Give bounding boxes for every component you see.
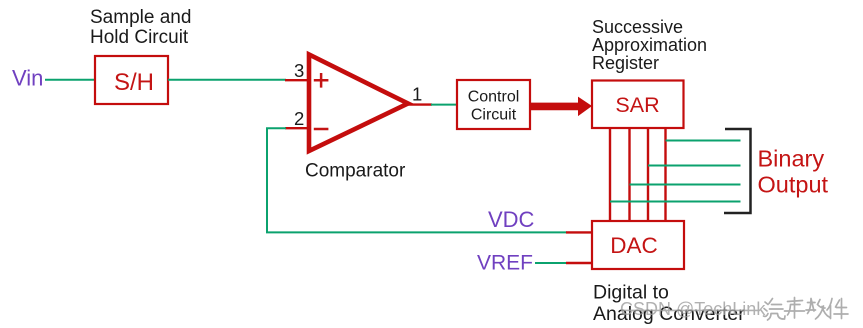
svg-text:CSDN @TechLink: CSDN @TechLink (620, 299, 766, 319)
output wire green 2 (648, 165, 741, 167)
output wire green 1 (666, 140, 741, 142)
bus wire red vertical 1 (609, 128, 611, 221)
wire red stub VDC into DAC (566, 231, 592, 233)
svg-text:VDC: VDC (488, 207, 535, 232)
wire red stub pin 3 (285, 79, 309, 81)
watermark hanzi 汽车软件 (764, 298, 849, 321)
wire feedback green from pin2 left and down (267, 128, 567, 232)
thick arrow control to SAR (531, 97, 592, 117)
S/H box (sample and hold) (95, 56, 168, 104)
wire red stub output pin 1 (408, 103, 432, 105)
wire green output to control circuit (431, 104, 457, 106)
hanzi qi (764, 299, 786, 321)
svg-text:SAR: SAR (615, 93, 659, 117)
SAR box (592, 81, 684, 129)
wire green VREF (535, 262, 567, 264)
svg-text:3: 3 (294, 60, 304, 81)
svg-text:Control: Control (468, 89, 520, 106)
svg-text:Binary: Binary (758, 146, 825, 172)
svg-text:Circuit: Circuit (471, 107, 517, 124)
svg-text:Approximation: Approximation (592, 35, 707, 55)
svg-text:Successive: Successive (592, 17, 683, 37)
svg-text:1: 1 (412, 84, 422, 105)
svg-text:Register: Register (592, 53, 659, 73)
DAC box (592, 221, 684, 269)
svg-text:Comparator: Comparator (305, 161, 406, 182)
svg-text:Hold Circuit: Hold Circuit (90, 27, 189, 48)
bus wire red vertical 3 (647, 128, 649, 221)
svg-text:Sample and: Sample and (90, 7, 191, 28)
svg-text:S/H: S/H (114, 69, 154, 96)
hanzi ruan (806, 299, 830, 320)
wire S/H output to comparator (168, 79, 286, 81)
bus wire red vertical 4 (664, 128, 666, 221)
svg-text:VREF: VREF (477, 252, 533, 275)
svg-text:DAC: DAC (610, 233, 658, 258)
wire red stub pin 2 (285, 127, 309, 129)
svg-text:Output: Output (758, 172, 829, 198)
bracket binary output (724, 129, 751, 213)
svg-text:2: 2 (294, 108, 304, 129)
wire Vin to S/H (45, 79, 95, 81)
minus symbol (314, 128, 329, 131)
op-amp U1 comparator triangle (309, 55, 408, 152)
control circuit box (457, 80, 530, 129)
plus symbol (314, 73, 329, 88)
svg-text:Vin: Vin (12, 65, 43, 90)
hanzi jian (827, 299, 848, 319)
watermark CSDN @TechLink (620, 299, 766, 319)
output wire green 4 (610, 201, 741, 203)
hanzi che (785, 298, 805, 319)
output wire green 3 (630, 184, 741, 186)
wire red stub VREF into DAC (566, 262, 592, 264)
bus wire red vertical 2 (628, 128, 630, 221)
